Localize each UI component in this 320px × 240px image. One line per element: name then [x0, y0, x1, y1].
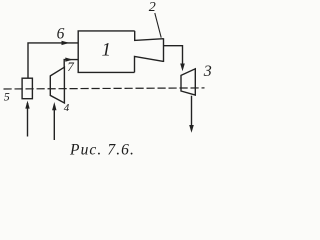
arrowhead into turbine — [180, 64, 185, 72]
wire 6: pump to chamber — [28, 43, 78, 78]
arrowhead into compressor — [52, 102, 56, 110]
svg-text:5: 5 — [4, 89, 10, 103]
feed wire into pump 5 — [27, 103, 29, 137]
arrowhead into pump — [25, 101, 29, 109]
svg-text:6: 6 — [57, 26, 65, 43]
exhaust wire below turbine — [191, 96, 193, 126]
feed wire into compressor 4 — [53, 105, 55, 140]
svg-text:3: 3 — [203, 63, 212, 80]
shaft dashed line — [4, 88, 205, 89]
wire 7: compressor to chamber — [64, 60, 77, 68]
combustion chamber box 1 — [78, 31, 135, 73]
svg-text:7: 7 — [67, 59, 74, 74]
svg-text:4: 4 — [64, 102, 70, 114]
wire nozzle exit to turbine — [164, 46, 183, 65]
svg-text:Рис. 7.6.: Рис. 7.6. — [69, 141, 135, 158]
svg-text:1: 1 — [102, 40, 112, 61]
turbine 3 — [181, 69, 195, 95]
nozzle 2 (steps + diverging cone + exit plane) — [135, 31, 164, 73]
compressor 4 — [50, 67, 64, 103]
leader line to label 2 — [155, 13, 161, 38]
pump rect 5 — [22, 78, 32, 99]
svg-text:2: 2 — [149, 0, 156, 15]
arrowhead 6 — [62, 41, 70, 45]
exhaust arrowhead — [189, 125, 194, 133]
arrowhead 7 — [65, 58, 73, 62]
